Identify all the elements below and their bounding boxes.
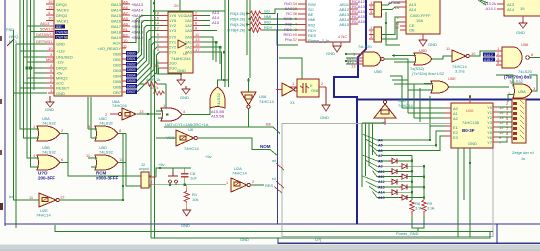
svg-text:1A3: 1A3	[185, 28, 193, 33]
svg-text:R5[4.2k]: R5[4.2k]	[230, 17, 245, 22]
svg-text:GND: GND	[516, 30, 525, 35]
OR gate vertical 74LS32	[210, 79, 228, 119]
inverter U6A 74HC04	[105, 99, 161, 120]
bus navy right branch	[357, 99, 540, 101]
diode D5	[389, 179, 397, 184]
svg-text:10k: 10k	[192, 197, 198, 202]
svg-text:A6: A6	[123, 5, 129, 10]
svg-text:74LS20: 74LS20	[518, 69, 533, 74]
svg-text:GND: GND	[180, 95, 189, 100]
wire net row	[158, 184, 226, 186]
svg-text:A9: A9	[123, 22, 129, 27]
wire inverter U2E	[34, 134, 123, 201]
svg-text:BA13: BA13	[111, 2, 122, 7]
capacitor C8	[173, 168, 197, 185]
svg-text:74LS32: 74LS32	[216, 92, 221, 107]
svg-text:10: 10	[471, 51, 476, 56]
svg-text:RES: RES	[265, 183, 274, 188]
svg-text:A8: A8	[123, 16, 129, 21]
resistor net labels	[264, 9, 273, 31]
resistor R8	[410, 200, 423, 216]
net labels above EPROM1	[388, 0, 400, 5]
svg-text:+12v: +12v	[56, 49, 65, 54]
svg-text:IRQ: IRQ	[264, 20, 271, 25]
svg-text:DB04: DB04	[127, 74, 136, 78]
OR gate U5B bottom-left	[33, 134, 68, 171]
svg-text:CWENB: CWENB	[56, 30, 69, 34]
svg-text:U10: U10	[466, 108, 474, 113]
svg-text:RESET: RESET	[56, 86, 70, 91]
svg-text:DB07: DB07	[127, 90, 136, 94]
svg-text:74HC14: 74HC14	[36, 213, 51, 218]
U11 left pins	[497, 4, 504, 9]
connector J3 right	[506, 99, 526, 143]
wires nest into 138 A inputs	[390, 76, 445, 126]
svg-text:3.9k: 3.9k	[427, 206, 435, 211]
frame bottom right tick	[496, 224, 498, 244]
ground X1	[322, 87, 330, 111]
svg-text:10: 10	[123, 38, 128, 43]
svg-text:BE: BE	[266, 122, 272, 127]
svg-text:GND: GND	[311, 88, 320, 93]
wire NAND U56 output	[529, 57, 540, 59]
inverter U2F 74HC14	[446, 46, 476, 74]
svg-text:rd: rd	[272, 176, 276, 181]
svg-text:19: 19	[520, 6, 525, 11]
frame left border	[4, 0, 6, 226]
svg-text:Js: Js	[521, 156, 525, 161]
U10 left pins	[445, 108, 451, 136]
wire OR U5D to inverter	[432, 56, 452, 59]
net labels A13-A15	[212, 10, 220, 25]
svg-text:GND: GND	[240, 237, 249, 242]
svg-text:3.2ns: 3.2ns	[455, 69, 465, 74]
svg-text:1Y3: 1Y3	[169, 28, 177, 33]
IC U7 74AHC244 buffer	[168, 12, 193, 73]
svg-text:Pho: Pho	[285, 37, 293, 42]
crystal X1	[290, 79, 326, 105]
OR gate U5E lower	[424, 76, 509, 93]
diode D3	[389, 169, 397, 174]
U9 bottom pin + gnd	[422, 34, 424, 40]
svg-text:37: 37	[293, 37, 298, 42]
svg-text:TACK1: TACK1	[56, 19, 69, 24]
svg-text:IRQ: IRQ	[285, 22, 292, 27]
IC U11 EPROM right (cropped)	[504, 0, 540, 16]
inverter U2B 74HC14 mid (points down)	[241, 78, 274, 127]
svg-text:17: 17	[195, 47, 200, 52]
svg-text:A6: A6	[378, 149, 383, 153]
svg-text:TACK3: TACK3	[56, 8, 69, 13]
bus drop vertical	[277, 13, 279, 224]
U8 bottom pins + ground	[333, 42, 341, 46]
diode D2	[399, 164, 407, 169]
resistor pack labels	[227, 11, 245, 33]
svg-text:A10: A10	[378, 170, 385, 174]
push button S1	[168, 172, 178, 183]
resistor R12 pull-up	[150, 85, 165, 95]
U1 DB boxed labels	[126, 51, 137, 94]
svg-text:DB05: DB05	[127, 79, 136, 83]
svg-text:X1: X1	[290, 100, 296, 105]
resistor R1	[184, 185, 198, 207]
diode matrix columns	[412, 156, 424, 200]
svg-text:DRQ3: DRQ3	[56, 13, 68, 18]
U1 right pin labels	[97, 2, 121, 95]
frame bottom border	[5, 223, 540, 225]
svg-text:R3[4.2k]: R3[4.2k]	[230, 11, 245, 16]
svg-text:IDE: IDE	[56, 25, 62, 29]
svg-text:10: 10	[48, 46, 53, 51]
wire NOM to sheet port	[198, 138, 278, 156]
svg-text:GND: GND	[45, 107, 54, 112]
svg-text:GND: GND	[428, 42, 437, 47]
wires U7 outputs	[154, 0, 229, 87]
svg-text:+BA14: +BA14	[131, 8, 144, 13]
U1 right pins	[122, 4, 130, 92]
OR gate U5A right	[508, 79, 536, 98]
svg-text:+BA19: +BA19	[131, 35, 144, 40]
U11 bottom pin + gnd	[522, 16, 524, 21]
NAND gate U56	[496, 42, 534, 80]
svg-text:M13: M13	[9, 39, 18, 44]
inverter U2A 74HC14	[226, 166, 255, 192]
svg-text:RCA16: RCA16	[352, 19, 366, 24]
svg-text:FND: FND	[6, 27, 14, 32]
svg-text:A613: A613	[40, 21, 50, 26]
svg-text:1uF: 1uF	[190, 176, 197, 181]
svg-text:GND: GND	[56, 42, 65, 47]
svg-text:2Y3: 2Y3	[169, 50, 177, 55]
svg-text:4x: 4x	[146, 77, 150, 82]
svg-text:GND: GND	[326, 51, 335, 56]
svg-text:GND: GND	[56, 91, 65, 96]
svg-text:7xLS20: 7xLS20	[358, 44, 372, 49]
inverter U2E bottom-left 74HC14	[29, 193, 65, 218]
wire diagonal into U11	[478, 0, 488, 5]
svg-text:3.9k: 3.9k	[415, 206, 423, 211]
IC U10 74HC138	[451, 103, 493, 148]
svg-text:B1: B1	[123, 27, 129, 32]
svg-text:BA17: BA17	[111, 24, 122, 29]
svg-text:OE: OE	[409, 28, 415, 33]
svg-text:4 NC: 4 NC	[338, 34, 347, 39]
svg-text:+BA13: +BA13	[131, 2, 144, 7]
svg-text:A8: A8	[378, 159, 383, 163]
U1 right net labels (purple)	[131, 2, 144, 40]
svg-text:74HC14: 74HC14	[398, 103, 413, 108]
connector J2	[139, 162, 158, 188]
resistor R3	[248, 11, 263, 16]
svg-text:74HC14: 74HC14	[259, 99, 274, 104]
svg-text:NOM: NOM	[260, 144, 271, 149]
wire left vertical bus	[14, 0, 96, 228]
svg-text:UAT=CY1=1A6/JRC+1A: UAT=CY1=1A6/JRC+1A	[165, 122, 209, 127]
svg-text:74HC138: 74HC138	[462, 120, 480, 125]
svg-text:BA19: BA19	[111, 35, 122, 40]
svg-text:A7: A7	[378, 154, 383, 158]
IC U9 EPROM C000-FFFF (top cropped)	[406, 0, 440, 34]
ground R1	[183, 207, 191, 216]
wires R8 R9 to gnd	[412, 216, 424, 231]
jumper JP1	[369, 0, 382, 17]
OR gate U5A bottom-left	[33, 116, 68, 141]
rail junction dots	[246, 12, 251, 31]
svg-text:(7x*32n) 8ns+LS2: (7x*32n) 8ns+LS2	[412, 71, 445, 76]
svg-text:DB01: DB01	[127, 57, 136, 61]
svg-text:NMb: NMb	[284, 16, 293, 21]
wire into U5E	[408, 89, 424, 91]
svg-text:A14: A14	[507, 7, 515, 12]
svg-text:GND: GND	[181, 223, 190, 228]
IC U8 6502 CPU (white, top cropped)	[306, 0, 350, 42]
svg-text:12: 12	[155, 26, 160, 31]
svg-text:13: 13	[139, 109, 144, 114]
wire net upper to sheet BE	[164, 127, 280, 134]
svg-text:AB15: AB15	[339, 22, 350, 27]
bus navy thick	[334, 0, 366, 224]
svg-text:A4: A4	[378, 138, 383, 142]
OR gate U5C bottom-left col2	[88, 116, 126, 141]
inverter U6B oscillator driver	[276, 83, 297, 96]
svg-text:DB03: DB03	[127, 68, 136, 72]
svg-text:+5v: +5v	[205, 154, 212, 159]
svg-text:DB0: DB0	[113, 52, 122, 57]
triangle symbol	[178, 40, 186, 48]
diode D6	[399, 185, 407, 190]
white OR gate	[156, 103, 210, 121]
sheet port slash 1	[276, 163, 284, 170]
resistor R9	[422, 200, 435, 216]
wires jumpers to EPROM	[382, 2, 401, 45]
diode D4	[399, 174, 407, 179]
svg-text:R.1k: R.1k	[152, 77, 160, 82]
U8 left pins	[298, 4, 306, 40]
wires resistors to CPU	[263, 9, 298, 45]
svg-text:B2: B2	[123, 33, 129, 38]
triangle gate U2D pointing up	[374, 98, 413, 125]
svg-text:-12v: -12v	[56, 60, 64, 65]
resistor R7B	[248, 28, 263, 33]
diode D8	[399, 195, 407, 200]
svg-text:A15.2: A15.2	[484, 58, 493, 62]
off-page connector HRQ	[6, 27, 18, 46]
svg-text:DB3: DB3	[113, 68, 122, 73]
svg-text:GND: GND	[468, 141, 477, 146]
resistor R2 horizontal	[140, 77, 166, 110]
svg-text:15: 15	[48, 0, 53, 4]
svg-text:DB02: DB02	[127, 63, 136, 67]
svg-text:DRQ1: DRQ1	[56, 2, 68, 7]
svg-text:20: 20	[174, 3, 179, 8]
svg-text:A14.1: A14.1	[486, 6, 497, 11]
svg-text:74HC04: 74HC04	[112, 103, 127, 108]
svg-text:2A3: 2A3	[185, 50, 193, 55]
svg-text:CWTNB: CWTNB	[56, 36, 69, 40]
window frame line bottom right	[278, 238, 540, 244]
svg-text:GND: GND	[320, 115, 329, 120]
NAND U56 boxed input labels	[483, 52, 495, 61]
svg-text:DB06: DB06	[127, 85, 136, 89]
svg-text:+5v: +5v	[158, 162, 165, 167]
U1 left pin labels	[56, 2, 73, 96]
svg-text:200-3FF: 200-3FF	[38, 176, 55, 181]
svg-text:Zeige der rd: Zeige der rd	[512, 150, 534, 155]
svg-text:DB2: DB2	[113, 63, 122, 68]
diode matrix wire fan	[362, 123, 385, 198]
svg-text:U?[: U?[	[315, 237, 322, 242]
svg-text:50W13: 50W13	[40, 27, 53, 32]
svg-text:R7B[4.2k]: R7B[4.2k]	[227, 28, 245, 33]
node junction	[26, 67, 29, 70]
wire bundle U1 to U7	[130, 16, 160, 93]
svg-text:U5A: U5A	[518, 89, 526, 94]
diode row wires	[382, 161, 424, 198]
U1 right pin numbers	[123, 0, 129, 49]
svg-text:A14: A14	[409, 7, 417, 12]
svg-text:unpol: unpol	[139, 166, 149, 171]
svg-text:22: 22	[395, 25, 400, 30]
ground mid	[182, 86, 190, 94]
svg-text:DATAW13: DATAW13	[36, 32, 55, 37]
svg-text:74LS32: 74LS32	[99, 121, 114, 126]
svg-text:GND: GND	[177, 68, 186, 73]
svg-text:A7: A7	[123, 11, 129, 16]
ground below U1	[46, 96, 54, 107]
jumper JP2	[369, 25, 382, 42]
svg-text:U6: U6	[188, 127, 194, 132]
wire NAND U5B output	[384, 59, 431, 84]
inverter U2C 74HC14	[156, 130, 199, 151]
svg-text:NMI: NMI	[264, 14, 271, 19]
svg-text:hw: hw	[9, 194, 14, 199]
frame tick marks	[0, 203, 3, 210]
junction dots matrix	[411, 160, 425, 199]
svg-text:DB6: DB6	[113, 85, 122, 90]
svg-text:IRQ: IRQ	[308, 23, 315, 28]
svg-text:RDY: RDY	[264, 25, 273, 30]
svg-text:A15.5B: A15.5B	[211, 114, 224, 119]
wires A4-A6 rows to 138 enables	[382, 126, 445, 156]
svg-text:DB7: DB7	[113, 90, 122, 95]
svg-text:VCC: VCC	[166, 135, 175, 140]
sheet port slash 2	[276, 181, 284, 188]
svg-text:B0-3F: B0-3F	[462, 128, 475, 133]
svg-text:A5: A5	[123, 0, 129, 5]
svg-text:Y7: Y7	[487, 140, 493, 145]
svg-text:A5: A5	[378, 144, 383, 148]
power rails (double green verticals)	[247, 0, 250, 78]
U1 left pins	[46, 4, 54, 93]
U7 right pins	[193, 16, 201, 53]
wire J2 pin1 to +5v	[156, 168, 191, 177]
svg-text:A2: A2	[453, 116, 459, 121]
resistor R5	[248, 17, 263, 22]
svg-text:Phase_2_In: Phase_2_In	[308, 38, 329, 43]
U10 top power pin	[469, 95, 471, 103]
svg-text:A15: A15	[212, 20, 220, 25]
U9 left pins	[400, 2, 406, 30]
OR gate U5D bottom-left col2	[86, 134, 126, 171]
svg-text:DB4: DB4	[113, 74, 122, 79]
svg-text:14: 14	[395, 5, 400, 10]
svg-text:DRTW31: DRTW31	[36, 39, 53, 44]
svg-text:E3: E3	[453, 135, 459, 140]
svg-text:a4: a4	[382, 120, 387, 125]
node dots	[215, 41, 217, 43]
U10 bottom pin	[469, 148, 471, 163]
svg-text:74LS32: 74LS32	[99, 150, 114, 155]
svg-text:<I/O_READY: <I/O_READY	[97, 46, 121, 51]
wires into NAND U5B	[346, 54, 357, 64]
bottom green lines	[55, 225, 493, 238]
svg-text:M62: M62	[46, 57, 55, 62]
svg-text:19A: 19A	[416, 18, 423, 23]
wire inverter to NAND U56	[469, 51, 496, 56]
svg-text:SO: SO	[264, 9, 270, 14]
svg-text:A9: A9	[378, 165, 383, 169]
svg-text:U5E: U5E	[448, 76, 456, 81]
svg-text:13: 13	[48, 5, 53, 10]
svg-text:74LS32: 74LS32	[42, 121, 57, 126]
U1 left pin numbers	[36, 0, 55, 93]
svg-text:A14.2: A14.2	[484, 53, 493, 57]
svg-text:U56: U56	[521, 42, 529, 47]
power rails mid (double green verticals)	[151, 0, 155, 238]
wires 138 to connector	[498, 107, 512, 142]
svg-text:BA15: BA15	[111, 13, 122, 18]
U7 left pins	[160, 16, 168, 69]
wire top of crystal area	[279, 58, 302, 72]
IC U1 (bus interface, top cropped)	[54, 0, 122, 96]
svg-text:2G0: 2G0	[169, 66, 177, 71]
NAND gate U5B 74LS20	[347, 44, 384, 74]
svg-text:74LS32: 74LS32	[42, 150, 57, 155]
svg-text:DB1: DB1	[113, 57, 122, 62]
svg-text:U5D: U5D	[419, 48, 427, 53]
sheet symbol rectangle	[282, 124, 493, 237]
svg-text:BA16: BA16	[111, 19, 122, 24]
OR gate U5D	[392, 48, 445, 76]
wires bottom-left cluster	[68, 134, 151, 187]
svg-text:74HC14: 74HC14	[184, 146, 199, 151]
U8 right pins	[350, 4, 358, 24]
wires OR U5A	[496, 75, 537, 102]
bottom grey band	[0, 245, 540, 251]
svg-text:DB00: DB00	[127, 52, 136, 56]
svg-text:BA18: BA18	[111, 30, 122, 35]
svg-text:R4[4.2k]: R4[4.2k]	[230, 22, 245, 27]
U10 right pins	[493, 107, 498, 142]
U7 bottom pin + ground	[180, 73, 182, 78]
U7 top pin	[179, 0, 181, 12]
U1 active-low boxed labels	[55, 25, 69, 40]
svg-text:DB5: DB5	[113, 79, 122, 84]
svg-text:ACK: ACK	[113, 41, 122, 46]
svg-text:NMI: NMI	[308, 17, 315, 22]
svg-text:+BA18: +BA18	[131, 30, 144, 35]
svg-text:10: 10	[48, 16, 53, 21]
svg-text:12: 12	[60, 195, 65, 200]
svg-text:BA14: BA14	[111, 8, 122, 13]
diode D1	[389, 158, 397, 163]
resistor R4	[248, 22, 263, 27]
svg-text:U5B: U5B	[374, 69, 382, 74]
wire RES	[251, 184, 265, 186]
svg-text:+BA17: +BA17	[131, 24, 144, 29]
diode D7	[389, 190, 397, 195]
svg-text:74HC14: 74HC14	[232, 171, 247, 176]
